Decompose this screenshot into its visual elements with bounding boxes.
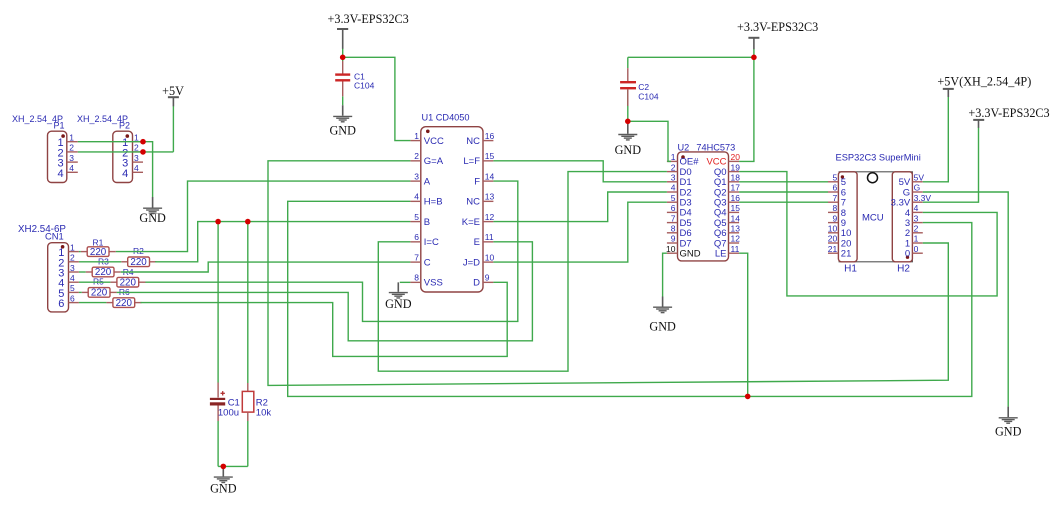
svg-text:4: 4 — [70, 273, 75, 283]
svg-text:1: 1 — [69, 133, 74, 143]
svg-text:2: 2 — [70, 253, 75, 263]
svg-text:3: 3 — [671, 173, 676, 183]
U1 title U1 CD4050 — [422, 112, 470, 122]
svg-text:2: 2 — [914, 224, 919, 234]
wire U2 Q1 to H1 pin5 — [739, 181, 828, 183]
module title ESP32C3 SuperMini — [836, 153, 921, 163]
wire CN1.3 to R3 — [79, 271, 86, 273]
R2 10k labels — [256, 397, 272, 418]
wire R2 up to B rail, U1 B pin5 — [155, 222, 410, 262]
svg-text:GND: GND — [385, 297, 412, 311]
resistor R1 220 — [81, 247, 116, 258]
svg-text:L=F: L=F — [463, 156, 480, 167]
svg-text:7: 7 — [414, 252, 419, 262]
svg-text:21: 21 — [828, 244, 838, 254]
svg-text:D: D — [473, 278, 480, 289]
power +5V(XH_2.54_4P) (right) — [937, 75, 1031, 97]
P1 labels XH_2.54_4P / P1 — [12, 114, 65, 130]
wire net J=D U1 pin10 to U2 D3 — [493, 202, 667, 262]
svg-text:J=D: J=D — [463, 257, 480, 268]
svg-text:C: C — [424, 257, 431, 268]
svg-text:4: 4 — [69, 163, 74, 173]
svg-text:5V: 5V — [914, 173, 925, 183]
wire +3.3V rail to C1 — [342, 49, 344, 62]
wire CN1.6 to R6 — [79, 302, 107, 304]
svg-text:E: E — [474, 237, 480, 248]
ground at U1 VSS pin8 — [385, 282, 412, 311]
wire R1 to node, up to U1 A pin3 — [116, 181, 411, 252]
U1 left pin numbers 1-8 — [414, 131, 419, 283]
svg-text:GND: GND — [210, 481, 237, 495]
junction bottom GND — [221, 464, 227, 470]
svg-text:+3.3V-EPS32C3: +3.3V-EPS32C3 — [737, 20, 818, 34]
svg-text:16: 16 — [485, 131, 495, 141]
svg-text:14: 14 — [731, 213, 741, 223]
wire P1.1 to P2.1 (GND net) — [78, 141, 143, 143]
power +5V (left) — [162, 84, 184, 106]
op-amp/IC U1 CD4050 body — [410, 127, 493, 292]
svg-text:100u: 100u — [218, 407, 239, 418]
svg-text:3: 3 — [134, 153, 139, 163]
wire net H=B U1 pin4 rail to ESP32 pin3 — [288, 201, 972, 396]
wire +5V riser — [172, 106, 174, 152]
R3 label — [98, 256, 109, 266]
svg-text:10: 10 — [666, 244, 676, 254]
power +3.3V-EPS32C3 (above C1/U1) — [328, 12, 409, 49]
wire R3 jog to U1 C pin7 — [121, 262, 411, 272]
power +3.3V-EPS32C3 (right) — [968, 106, 1049, 128]
U1 left pin names VCC G=A A H=B B I=C C VSS — [424, 136, 444, 289]
svg-text:11: 11 — [731, 244, 740, 254]
capacitor C1 C104 (bypass, near U1) — [335, 61, 350, 96]
module ESP32C3 SuperMini outline MCU — [839, 172, 912, 262]
svg-text:K=E: K=E — [462, 217, 480, 228]
svg-text:1: 1 — [914, 234, 919, 244]
svg-text:3: 3 — [414, 171, 419, 181]
P2 labels XH_2.54_4P / P2 — [77, 114, 130, 130]
svg-text:4: 4 — [671, 183, 676, 193]
wire C2 top rail — [628, 56, 754, 58]
svg-text:NC: NC — [466, 136, 480, 147]
svg-text:C2: C2 — [638, 82, 649, 92]
wire U1 VSS pin8 to GND — [400, 281, 411, 283]
junction +3.3V / C1 / U1 VCC — [340, 55, 346, 61]
wire net L=F U1 pin15 to U2 D1 — [493, 161, 667, 182]
svg-text:12: 12 — [731, 234, 741, 244]
svg-text:8: 8 — [832, 203, 837, 213]
svg-text:NC: NC — [466, 197, 480, 208]
junction B rail / R2 10k — [245, 219, 251, 225]
svg-text:13: 13 — [485, 192, 495, 202]
svg-text:CN1: CN1 — [45, 230, 64, 241]
ground below P2 — [139, 197, 166, 225]
svg-text:7: 7 — [671, 213, 676, 223]
svg-text:17: 17 — [731, 183, 741, 193]
svg-text:G: G — [914, 183, 921, 193]
wire bottom gnd join — [218, 465, 248, 467]
svg-text:C104: C104 — [638, 92, 659, 102]
R5 label — [93, 277, 104, 287]
svg-text:2: 2 — [671, 162, 676, 172]
svg-text:F: F — [474, 176, 480, 187]
U2 left pin names OE# D0-D7 GND — [680, 157, 701, 260]
svg-text:1: 1 — [70, 242, 75, 252]
wire CN1.5 to R5 — [79, 291, 82, 293]
svg-text:3.3V: 3.3V — [914, 193, 932, 203]
svg-text:11: 11 — [485, 232, 494, 242]
wire C1 bottom to GND — [342, 96, 344, 105]
svg-text:5: 5 — [414, 212, 419, 222]
junction +3.3V / C2 / U2 VCC — [751, 55, 757, 61]
capacitor C1 100u electrolytic — [210, 383, 225, 422]
svg-text:C104: C104 — [354, 80, 375, 90]
svg-text:12: 12 — [485, 212, 495, 222]
junction LE / H=B rail — [745, 394, 751, 400]
svg-text:6: 6 — [832, 183, 837, 193]
ground below C2 C104 — [615, 121, 642, 157]
svg-text:13: 13 — [731, 224, 741, 234]
svg-text:220: 220 — [116, 298, 133, 309]
U2 left pin numbers 1-10 — [666, 152, 676, 254]
svg-text:P1: P1 — [53, 121, 64, 131]
svg-text:5: 5 — [70, 283, 75, 293]
svg-text:9: 9 — [832, 213, 837, 223]
connector P1 XH_2.54_4P — [48, 131, 78, 182]
CN1 labels XH2.54-6P / CN1 — [18, 224, 66, 241]
U2 right pin names VCC Q0-Q7 LE — [706, 157, 726, 260]
svg-text:20: 20 — [828, 234, 838, 244]
ground bottom right (ESP32 G) — [995, 407, 1022, 439]
svg-text:14: 14 — [485, 171, 495, 181]
wire U2 Q0 loop to ESP32 pin4 — [739, 172, 997, 296]
svg-text:+5V: +5V — [162, 84, 184, 98]
resistor R3 220 — [86, 267, 121, 278]
wire ESP32 3.3V to +3.3V — [923, 128, 979, 203]
wire +3.3V to U2 VCC pin20 — [739, 49, 754, 161]
svg-text:8: 8 — [671, 224, 676, 234]
header H2 (right pin bar) — [891, 172, 932, 262]
svg-text:4: 4 — [122, 168, 128, 180]
svg-text:ESP32C3 SuperMini: ESP32C3 SuperMini — [836, 153, 921, 163]
junction B rail / C1 100u — [215, 219, 221, 225]
R6 label — [119, 287, 130, 297]
wire ESP32 G to GND — [923, 192, 1008, 407]
wire B rail to C1 100u — [217, 222, 219, 383]
svg-text:0: 0 — [914, 244, 919, 254]
svg-text:0: 0 — [905, 249, 910, 260]
svg-text:U2 74HC573: U2 74HC573 — [678, 143, 736, 153]
svg-text:1: 1 — [414, 131, 419, 141]
svg-text:H=B: H=B — [424, 197, 443, 208]
junction P2 pin1 / GND — [140, 139, 146, 145]
U2 title U2 74HC573 — [678, 143, 736, 153]
H2 label — [897, 263, 910, 274]
wire C2 bottom to junction — [627, 90, 629, 122]
svg-text:10: 10 — [828, 224, 838, 234]
svg-text:R1: R1 — [93, 237, 104, 247]
resistor R2 220 — [121, 257, 156, 268]
wire CN1.2 to R2 — [79, 261, 121, 263]
C1 labels C1 / C104 — [354, 71, 375, 90]
resistor R4 220 — [110, 277, 145, 288]
svg-text:19: 19 — [731, 162, 741, 172]
wire U2 Q3 to H1 pin7 — [739, 201, 828, 203]
svg-text:GND: GND — [329, 124, 356, 138]
svg-text:4: 4 — [414, 192, 419, 202]
svg-text:GND: GND — [139, 211, 166, 225]
svg-text:10: 10 — [485, 252, 495, 262]
resistor R2 10k (pull-up) — [242, 383, 254, 421]
svg-text:2: 2 — [414, 151, 419, 161]
svg-text:1: 1 — [671, 152, 676, 162]
wire R6 loop to U1 D pin9 — [141, 282, 508, 356]
svg-text:VSS: VSS — [424, 278, 443, 289]
svg-text:GND: GND — [615, 143, 642, 157]
svg-text:4: 4 — [134, 163, 139, 173]
resistor R6 220 — [106, 298, 141, 309]
wire U2 GND pin10 drop — [663, 253, 667, 296]
wire P2.1 to GND drop — [143, 142, 153, 197]
U1 right pin names NC L=F F NC K=E E J=D D — [462, 136, 480, 289]
svg-text:6: 6 — [671, 203, 676, 213]
C2 labels C2 / C104 — [638, 82, 659, 102]
wire U2 Q2 to H1 pin6 — [739, 191, 828, 193]
svg-text:3: 3 — [69, 153, 74, 163]
wire net I=C U1 pin6 to U2 D0 — [378, 172, 667, 372]
wire C2 junction to U2 OE# pin1 — [628, 121, 671, 161]
wire net K=E U1 pin12 to U2 D2 — [493, 192, 667, 222]
svg-text:2: 2 — [69, 143, 74, 153]
svg-text:6: 6 — [414, 232, 419, 242]
svg-text:220: 220 — [91, 288, 108, 299]
svg-text:15: 15 — [485, 151, 495, 161]
svg-text:H1: H1 — [844, 263, 857, 274]
junction P2 pin2 / +5V — [140, 149, 146, 155]
svg-text:U1 CD4050: U1 CD4050 — [422, 112, 470, 122]
C1 100u labels — [218, 397, 240, 418]
svg-text:GND: GND — [649, 320, 676, 334]
svg-text:16: 16 — [731, 193, 741, 203]
ground below C1 C104 — [329, 105, 356, 137]
svg-text:I=C: I=C — [424, 237, 439, 248]
resistor R5 220 — [82, 288, 117, 299]
wire P1.2 to P2.2 (+5V net) — [78, 151, 174, 153]
svg-text:15: 15 — [731, 203, 741, 213]
svg-text:4: 4 — [914, 203, 919, 213]
svg-text:6: 6 — [70, 293, 75, 303]
R2 label — [133, 246, 144, 256]
wire +3.3V rail to U1 VCC pin1 — [343, 57, 411, 140]
svg-text:9: 9 — [671, 234, 676, 244]
svg-text:MCU: MCU — [862, 212, 884, 223]
ground below U2 pin10 — [649, 297, 676, 334]
wire U2 LE drop to H=B rail — [739, 253, 748, 396]
svg-text:9: 9 — [485, 273, 490, 283]
svg-text:8: 8 — [414, 273, 419, 283]
svg-text:5: 5 — [671, 193, 676, 203]
IC U2 74HC573 body — [667, 152, 739, 261]
svg-text:18: 18 — [731, 173, 741, 183]
wire ESP32 5V to +5V — [923, 97, 949, 182]
svg-text:VCC: VCC — [424, 136, 444, 147]
svg-text:B: B — [424, 217, 430, 228]
svg-text:21: 21 — [841, 249, 852, 260]
svg-text:7: 7 — [832, 193, 837, 203]
R4 label — [123, 267, 134, 277]
wire B rail to R2 10k — [247, 222, 249, 383]
connector CN1 XH2.54-6P — [48, 242, 79, 312]
wire CN1.1 to R1 — [79, 251, 81, 253]
svg-text:GND: GND — [995, 425, 1022, 439]
svg-text:5: 5 — [832, 173, 837, 183]
U2 right pin numbers 20-11 — [731, 152, 741, 254]
ground below C1/R2 bottom — [210, 466, 237, 495]
capacitor C2 C104 (bypass, near U2) — [620, 68, 636, 106]
svg-text:3: 3 — [914, 213, 919, 223]
svg-text:H2: H2 — [897, 263, 910, 274]
svg-text:LE: LE — [715, 249, 727, 260]
wire C1 100u bottom — [217, 421, 219, 466]
svg-text:20: 20 — [731, 152, 741, 162]
svg-text:G=A: G=A — [424, 156, 444, 167]
header H1 (left pin bar) — [828, 172, 857, 262]
svg-text:4: 4 — [57, 168, 63, 180]
svg-text:+5V(XH_2.54_4P): +5V(XH_2.54_4P) — [937, 75, 1031, 89]
svg-text:10k: 10k — [256, 407, 272, 418]
power +3.3V-EPS32C3 (above U2) — [737, 20, 818, 49]
wire R2 10k bottom — [247, 421, 249, 466]
R1 label — [93, 237, 104, 247]
svg-text:+3.3V-EPS32C3: +3.3V-EPS32C3 — [328, 12, 409, 26]
svg-text:3: 3 — [70, 263, 75, 273]
svg-text:P2: P2 — [119, 121, 130, 131]
wire CN1.4 to R4 — [79, 281, 111, 283]
wire R4 loop to U1 F pin14 — [145, 181, 517, 321]
svg-text:GND: GND — [680, 249, 701, 260]
connector P2 XH_2.54_4P — [113, 131, 143, 182]
svg-text:+3.3V-EPS32C3: +3.3V-EPS32C3 — [968, 106, 1049, 120]
junction C2 / GND / OE# — [625, 119, 631, 125]
svg-text:A: A — [424, 176, 431, 187]
wire net G=A U1 pin2 rail — [268, 161, 948, 386]
svg-text:6: 6 — [58, 298, 64, 310]
U1 right pin numbers 16-9 — [485, 131, 495, 283]
wire R5 loop to U1 E pin11 — [117, 242, 533, 341]
H1 label — [844, 263, 857, 274]
wire C2 top lead — [627, 57, 629, 68]
